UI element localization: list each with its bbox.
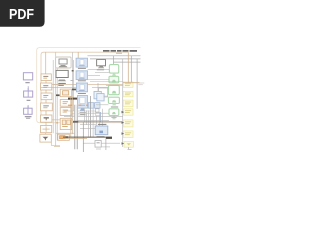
purple box P2 bbox=[24, 88, 33, 97]
gray vertical wire pair center-left bbox=[53, 52, 57, 145]
label P3 bbox=[25, 116, 32, 118]
labels under B4 bbox=[80, 112, 86, 115]
dark junction blob on bus bbox=[73, 121, 78, 123]
small box bottom center bbox=[95, 141, 101, 148]
monitor box M1 bbox=[56, 57, 72, 68]
wire drop x137 bbox=[136, 59, 138, 109]
wire vertical feeder yellow column bbox=[122, 59, 124, 147]
label under M2 bbox=[58, 83, 66, 86]
darker wire mid bbox=[75, 121, 122, 123]
green box G2 bbox=[109, 76, 119, 83]
gray box around copy icon bbox=[99, 88, 108, 97]
arrow into Y6 bbox=[122, 132, 125, 135]
tan box R2 bbox=[60, 108, 71, 116]
vertical wires left of blue column bbox=[72, 52, 73, 111]
tan box L7 bbox=[40, 134, 51, 142]
yellow box Y7 bbox=[124, 142, 134, 148]
tan stub frame to B1 bbox=[77, 52, 79, 58]
inner frame bbox=[41, 52, 128, 120]
blue copy icon rect 1 bbox=[94, 92, 101, 99]
blue wire drop bbox=[100, 112, 102, 122]
tan wire frame to L1 bbox=[45, 52, 47, 74]
green box G4 bbox=[108, 97, 119, 103]
tan box L4 bbox=[41, 103, 53, 111]
tan wire bottom bbox=[63, 138, 87, 140]
purple box P3 bbox=[24, 106, 32, 115]
label under Y7 bbox=[128, 147, 132, 150]
label under G4 bbox=[111, 107, 118, 108]
dark wire bottom bbox=[63, 136, 106, 138]
tan box R1 bbox=[60, 100, 71, 107]
wire drop x131 bbox=[130, 56, 132, 82]
blue copy icon rect 2 bbox=[97, 94, 104, 101]
tan box R3 bbox=[60, 118, 71, 129]
label under small box bbox=[96, 148, 101, 151]
wire drop to copy icon bbox=[97, 83, 99, 92]
label under B9 bbox=[97, 135, 105, 138]
svg-text:PDF: PDF bbox=[9, 6, 34, 23]
orange dashed wire bbox=[68, 105, 95, 106]
small blue box pair lower bbox=[88, 103, 100, 109]
arrow into Y7 bbox=[122, 142, 125, 145]
yellow box Y1 bbox=[123, 82, 133, 87]
label P2 bbox=[27, 100, 31, 101]
tiny gray box stack bbox=[95, 109, 100, 116]
green box G5 bbox=[109, 109, 119, 119]
blue stand under B4 bbox=[80, 109, 85, 111]
purple box P1 bbox=[23, 73, 32, 80]
label under M3 bbox=[97, 68, 104, 71]
monitor icon M2 bbox=[56, 70, 68, 81]
green box G3 bbox=[108, 85, 119, 94]
top right horizontal wires bbox=[88, 56, 141, 62]
dark connector blob bbox=[106, 137, 112, 139]
outer frame bbox=[37, 48, 141, 123]
blue box B9 bbox=[95, 126, 108, 135]
blue box B2 bbox=[76, 71, 87, 80]
PDF badge bbox=[0, 0, 45, 27]
horizontal wires center mid bbox=[64, 111, 123, 147]
yellow box Y3 bbox=[123, 100, 133, 107]
page background bbox=[0, 0, 149, 198]
wire down from blob bbox=[105, 139, 107, 150]
tan box L5 bbox=[41, 115, 52, 122]
tan box L3 bbox=[41, 93, 52, 100]
tan wire drop from frame top bbox=[123, 52, 140, 82]
dark tick on wire bbox=[72, 70, 74, 72]
label above B9 bbox=[98, 124, 107, 125]
soften overlay bbox=[0, 40, 149, 198]
label under B2 bbox=[78, 80, 86, 81]
wires blue column to green bbox=[88, 69, 124, 105]
thick gray bus vertical bbox=[75, 105, 78, 150]
arrow into Y4 bbox=[122, 111, 125, 114]
purple wire P1-P2 bbox=[27, 86, 29, 91]
dark vertical stub bbox=[82, 122, 84, 152]
tan box L1 bbox=[41, 74, 51, 81]
green stand under G4 bbox=[112, 104, 116, 106]
tan wire L column verticals bbox=[45, 81, 47, 135]
orange tick left of R3 bbox=[56, 122, 58, 123]
yellow box Y5 bbox=[123, 120, 133, 127]
blue box B1 bbox=[76, 58, 87, 67]
tan elbow wire under L7 bbox=[51, 142, 54, 145]
tan wire horizontal long bbox=[52, 83, 123, 85]
blue box B3 bbox=[76, 83, 87, 92]
label under B1 bbox=[78, 68, 86, 69]
darker vertical wire bbox=[89, 96, 91, 138]
dark blob wire A bbox=[72, 89, 76, 91]
label under B3 bbox=[78, 93, 86, 94]
purple wire P2-P3 bbox=[27, 105, 29, 108]
yellow box Y6 bbox=[123, 131, 133, 138]
tan vertical wire pair center bbox=[71, 96, 73, 137]
tan box L2 bbox=[41, 83, 52, 90]
tan box R0 bbox=[60, 89, 71, 97]
blue box B4 tall bbox=[78, 96, 88, 109]
dark blob wire C bbox=[68, 98, 78, 100]
vertical wires center mid bbox=[84, 108, 102, 138]
tan dash bottom bbox=[54, 145, 60, 146]
gray wires around R column bbox=[41, 85, 78, 134]
green box G1 bbox=[109, 56, 118, 76]
tan box L6 bbox=[41, 126, 52, 133]
tan box R4 bbox=[58, 134, 70, 140]
label right of M2 bbox=[71, 79, 74, 82]
title text smudge top-right bbox=[103, 50, 137, 54]
monitor icon M3 bbox=[97, 60, 106, 69]
yellow box Y2 bbox=[123, 91, 133, 97]
label P1 bbox=[25, 82, 29, 83]
label right of Y1 bbox=[138, 83, 144, 86]
dark blob wire B bbox=[56, 94, 60, 96]
yellow box Y4 bbox=[123, 109, 133, 115]
arrow into Y5 bbox=[122, 121, 125, 124]
